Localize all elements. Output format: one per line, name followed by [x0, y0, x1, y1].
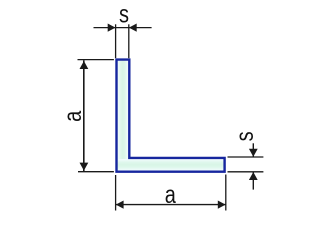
dimension s top: left arrow [108, 24, 116, 32]
angle profile horizontal leg fill [118, 159, 225, 171]
dimension s right: top extension line [228, 156, 264, 158]
dimension a left: bottom extension line [78, 171, 114, 173]
dimension a left: top extension line [78, 59, 114, 61]
dimension s top: right extension line [128, 24, 130, 58]
angle profile outline [117, 60, 225, 172]
dimension a left: dimension line [83, 60, 85, 171]
angle profile vertical leg fill [118, 61, 129, 171]
dimension a bottom: right extension line [225, 175, 227, 211]
svg-text:a: a [59, 110, 87, 121]
dimension a bottom: left extension line [115, 175, 117, 211]
dimension s right: down arrow [249, 149, 258, 157]
svg-text:s: s [231, 131, 259, 141]
dimension a bottom: right arrow [218, 201, 226, 209]
dimension a left: up arrow [80, 61, 89, 69]
svg-text:s: s [119, 0, 129, 28]
dimension s right: lower dimension line [252, 172, 254, 190]
dimension a bottom: left arrow [116, 201, 124, 209]
dimension s top: right arrow [129, 24, 137, 32]
dimension a bottom: dimension line [116, 204, 226, 206]
dimension s right: upper dimension line [252, 143, 254, 156]
dimension s right: bottom extension line [228, 171, 264, 173]
dimension a left: down arrow [80, 163, 89, 171]
dimension s top: left extension line [115, 24, 117, 58]
dimension s right: up arrow [249, 172, 258, 180]
dimension s top: dimension line [94, 27, 152, 29]
